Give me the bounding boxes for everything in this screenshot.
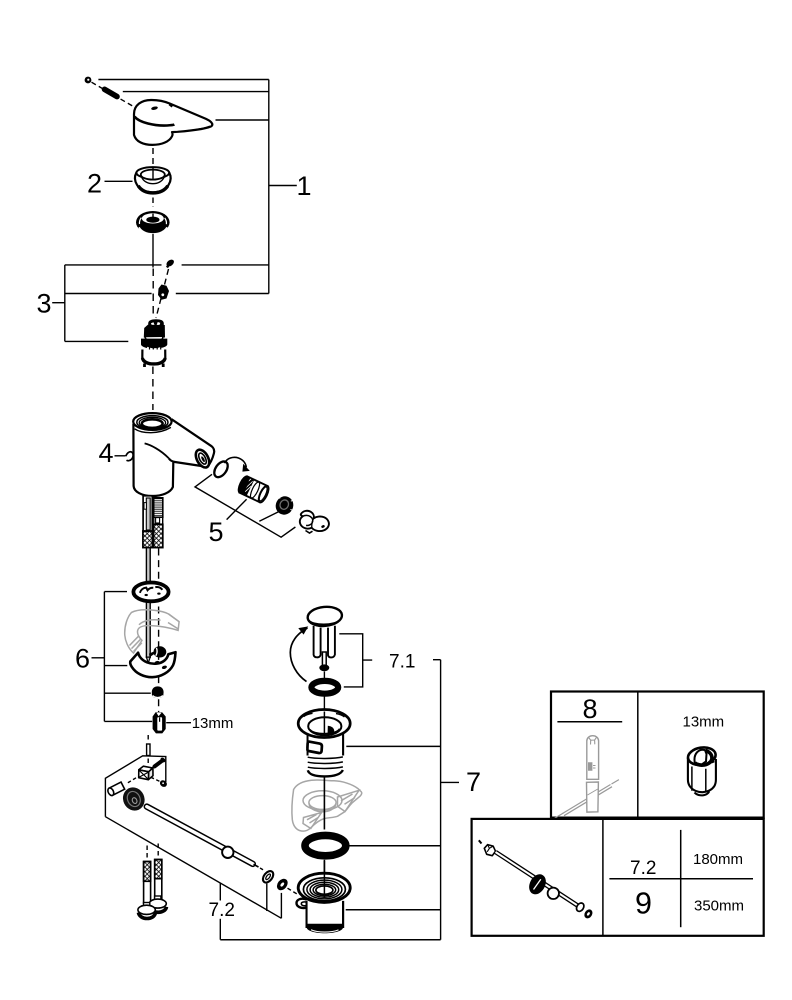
part 5 mousseur key [300, 511, 329, 533]
bracket 6 bottom tick to hex nut [104, 720, 152, 722]
bracket 3 vertical [64, 265, 66, 342]
svg-text:4: 4 [99, 438, 114, 468]
pull rod black nut [275, 877, 290, 893]
stud dashes [146, 846, 148, 861]
svg-text:180mm: 180mm [693, 851, 743, 868]
popup plug stem [314, 626, 335, 679]
svg-text:7.2: 7.2 [630, 858, 656, 879]
right stud [155, 860, 162, 899]
clamp cube [139, 766, 153, 780]
part 6 hex nut 13mm [153, 712, 166, 733]
bracket 7 label tick [441, 781, 459, 783]
bracket 1 tick and label 1 [269, 185, 297, 187]
axis dashes ring to nut [152, 198, 154, 208]
bracket 3 top line [65, 264, 269, 266]
box 8 and 13mm outer rect [551, 692, 764, 818]
ghost wrench tool [125, 610, 179, 653]
mounting plate outline [105, 756, 165, 817]
bracket 7 vertical [440, 660, 442, 940]
knob shank [107, 782, 125, 796]
rotation arrow 7.1 [290, 628, 307, 682]
13mm leader line [166, 722, 191, 724]
svg-text:2: 2 [87, 169, 102, 199]
screw dashed axis [92, 82, 137, 108]
svg-text:13mm: 13mm [192, 715, 234, 732]
popup plug o-ring [311, 681, 338, 694]
bracket 7.1 [339, 634, 372, 687]
clamp screw [151, 757, 167, 769]
part 2 cartridge nut [136, 211, 170, 236]
handle screw head [85, 77, 92, 84]
bracket 7.2 label tick [219, 883, 221, 901]
13mm socket [687, 746, 717, 796]
cartridge [141, 320, 167, 367]
svg-text:8: 8 [583, 694, 598, 724]
drain waste body [298, 710, 350, 777]
big black o-ring [305, 835, 346, 855]
left shank [143, 496, 153, 548]
axis o-ring to flange [323, 696, 325, 710]
part 5 knurled ring [273, 493, 297, 517]
stop valve tool ghost [555, 736, 619, 819]
axis dashes handle to ring [152, 148, 154, 166]
part 5 flow regulator [236, 475, 270, 504]
svg-text:5: 5 [209, 517, 224, 547]
svg-text:3: 3 [37, 289, 52, 319]
screw dashed line to cartridge [156, 269, 169, 318]
lower drain body [296, 861, 350, 933]
right shank threaded [154, 498, 163, 548]
svg-text:9: 9 [635, 887, 652, 921]
bracket 7.2 stem to bottom line [219, 919, 221, 940]
pull rod [147, 807, 264, 871]
part 6 dome nut [152, 686, 164, 698]
bracket 7.2 tick nut [280, 893, 282, 918]
bracket 3 mid line [65, 293, 269, 295]
axis to lower body [323, 860, 325, 899]
cartridge screw [165, 258, 175, 268]
axis through deck [323, 777, 325, 830]
clamp lower nut [151, 777, 168, 788]
svg-text:13mm: 13mm [683, 714, 725, 731]
bracket 1 line to lever [216, 119, 269, 121]
bracket 6 vertical [103, 592, 105, 722]
part 6 o-ring [133, 583, 168, 602]
lift rod [146, 548, 150, 663]
svg-text:350mm: 350mm [694, 898, 744, 915]
lever handle body [134, 100, 212, 145]
left foot [138, 903, 155, 919]
axis dashed right shank down [158, 549, 160, 713]
bracket 7.2 main diagonal [105, 817, 281, 919]
cartridge hex adapter [158, 285, 169, 300]
tick black ring to bracket 7 [350, 845, 441, 847]
svg-text:7.2: 7.2 [209, 900, 235, 921]
ghost sink deck [292, 780, 362, 831]
svg-text:6: 6 [75, 644, 90, 674]
bracket 7.2 tick o-ring [266, 884, 268, 911]
bracket 5 tick to knurled ring [259, 511, 280, 521]
bracket 3 bottom line [65, 340, 129, 342]
svg-text:1: 1 [297, 171, 312, 201]
bracket 6 tick to o-ring [104, 591, 127, 593]
part 5 o-ring [212, 459, 231, 480]
bracket 6 tick to hook [104, 665, 127, 667]
tick waste body to bracket 7 [346, 745, 440, 747]
bracket 5 polyline [195, 474, 295, 537]
box 8 divider [637, 692, 639, 818]
tick lower body to bracket 7 [346, 909, 441, 911]
lever pin hook on body [126, 452, 133, 461]
dashes to drain [288, 888, 299, 894]
axis solid nut to bracket3 [152, 234, 154, 268]
right foot [149, 896, 166, 912]
bracket 7 top tick [433, 659, 441, 661]
bracket 1 line to screw [98, 79, 268, 81]
svg-text:7.1: 7.1 [389, 651, 415, 672]
bracket 6 tick to dome nut [104, 692, 150, 694]
axis dashed cartridge to body [152, 367, 154, 411]
pin above clamp cube [147, 744, 150, 756]
bracket 1 vertical [268, 80, 270, 294]
rod 9 drawing [479, 840, 594, 920]
pull rod knob [119, 784, 148, 814]
axis dashed into cartridge [152, 269, 154, 319]
box 9 divider [602, 819, 604, 936]
bottom line to bracket 7 [220, 939, 440, 941]
axis dash below hex nut [147, 735, 149, 742]
label 8 underline [557, 721, 622, 723]
faucet body part 4 [133, 413, 214, 496]
left stud [144, 862, 151, 904]
bracket 1 line to shaft [123, 91, 269, 93]
popup plug cap [307, 605, 343, 627]
part 2 escutcheon ring [135, 167, 171, 193]
drain lever hook [130, 646, 175, 677]
pull rod small o-ring [261, 869, 275, 884]
table lines [680, 830, 682, 927]
box 9 outer rect [472, 819, 764, 936]
svg-text:7: 7 [466, 767, 481, 797]
handle screw shaft [105, 89, 118, 96]
part 5 rotation arrow [225, 457, 247, 467]
dashes cube to shank [127, 778, 137, 784]
